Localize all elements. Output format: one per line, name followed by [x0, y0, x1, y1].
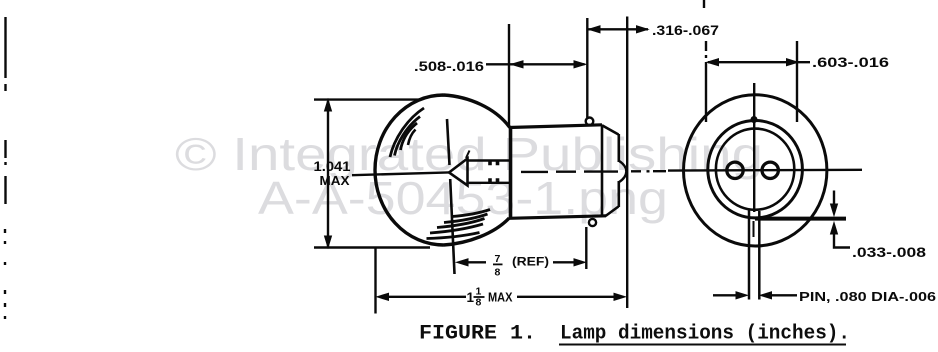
pin inner mark [753, 221, 755, 237]
centerline end view [668, 169, 862, 172]
svg-text:.508-.016: .508-.016 [414, 59, 485, 74]
base top chamfer [602, 125, 619, 134]
top nub [751, 117, 757, 123]
dim .033 lower arrow [831, 223, 838, 235]
svg-text:7: 7 [495, 253, 501, 265]
contact eyelet right [762, 162, 778, 178]
bayonet pin top [586, 118, 594, 126]
cone spike [466, 151, 470, 159]
svg-text:1: 1 [467, 290, 475, 305]
dim .603 extension left [704, 0, 706, 122]
dim 1-1/8 MAX left extension [374, 247, 376, 314]
arrow right .316 [637, 26, 649, 33]
svg-text:8: 8 [495, 267, 501, 279]
stem line [447, 119, 455, 274]
fraction bar 1/8 [474, 296, 485, 298]
dim .033 upper arrow [833, 191, 835, 206]
arrow left .603 [707, 59, 719, 66]
shading arcs lower-right [452, 210, 490, 217]
arrow left .508 [511, 61, 523, 68]
svg-text:.603-.016: .603-.016 [812, 55, 890, 70]
arrow up 1.041 [325, 100, 332, 112]
fraction bar 7/8 [493, 263, 503, 265]
filament support rod upper [468, 159, 510, 161]
svg-text:8: 8 [476, 297, 482, 309]
filament support rod lower [468, 182, 510, 184]
beads lower rod [490, 178, 498, 182]
arrow right to pin [736, 292, 748, 299]
dim .508-.016 line [486, 63, 585, 65]
dim 1.041 bottom tick [314, 246, 430, 248]
svg-text:1.041: 1.041 [314, 159, 352, 174]
filament cone [449, 159, 468, 186]
end view vertical centerline [753, 83, 755, 212]
extension line B (base seat plane) [586, 18, 587, 269]
dim .603 extension right [796, 41, 798, 122]
dim .603 line [708, 61, 810, 63]
base top edge [509, 125, 602, 128]
base reduced section edge [617, 134, 620, 207]
svg-text:PIN, .080 DIA-.006: PIN, .080 DIA-.006 [799, 289, 936, 304]
dim 1.041 vertical line [327, 101, 329, 247]
pin side lines [749, 211, 759, 300]
svg-text:(REF): (REF) [512, 257, 549, 269]
svg-text:MAX: MAX [320, 173, 350, 188]
dim 1-1/8 MAX line right [517, 296, 614, 298]
horizontal centerline left [352, 172, 449, 175]
dim .316-.067 line [589, 28, 649, 30]
arrow right .603 [787, 59, 799, 66]
contact eyelet left [727, 162, 743, 178]
arrow down 1.041 [325, 236, 332, 248]
arrow left to pin [760, 292, 771, 299]
arrow right 1-1/8 [614, 293, 626, 300]
svg-text:Lamp dimensions (inches).: Lamp dimensions (inches). [560, 323, 850, 346]
arrow right .508 [574, 61, 586, 68]
shell bottom edge line [755, 217, 846, 221]
dim 7/8 REF left arrow [457, 259, 469, 266]
base right edge [601, 125, 604, 216]
shading arcs upper-left [390, 108, 424, 157]
dim pin dia line left [713, 294, 738, 296]
arrow left 1-1/8 [377, 293, 389, 300]
extension line C (tip plane) [626, 17, 628, 309]
dim 1-1/8 MAX line left [387, 296, 466, 298]
contact tip [619, 161, 627, 183]
dim pin dia line right [770, 294, 797, 296]
svg-text:.316-.067: .316-.067 [652, 23, 719, 38]
extension line A (bulb/base joint) [508, 24, 510, 126]
base bottom edge [509, 216, 606, 219]
beads upper rod [490, 161, 498, 165]
end view inner circle [716, 129, 794, 210]
svg-text:MAX: MAX [488, 291, 513, 305]
caption underline [559, 344, 846, 346]
centerline dash-dot through base [521, 170, 666, 173]
base bottom chamfer [606, 207, 619, 217]
bayonet pin bottom [589, 219, 596, 226]
globe neck line [509, 127, 513, 218]
svg-text:.033-.008: .033-.008 [852, 245, 927, 260]
bulb globe [375, 95, 510, 245]
end view outer circle [684, 95, 827, 246]
dim 7/8 REF right arrow [574, 259, 585, 266]
svg-text:FIGURE 1.: FIGURE 1. [419, 323, 536, 346]
arrow left .316 [589, 26, 601, 33]
dim 1.041 top tick [314, 98, 421, 100]
left margin broken line [4, 17, 7, 319]
end view shell circle [708, 121, 803, 218]
